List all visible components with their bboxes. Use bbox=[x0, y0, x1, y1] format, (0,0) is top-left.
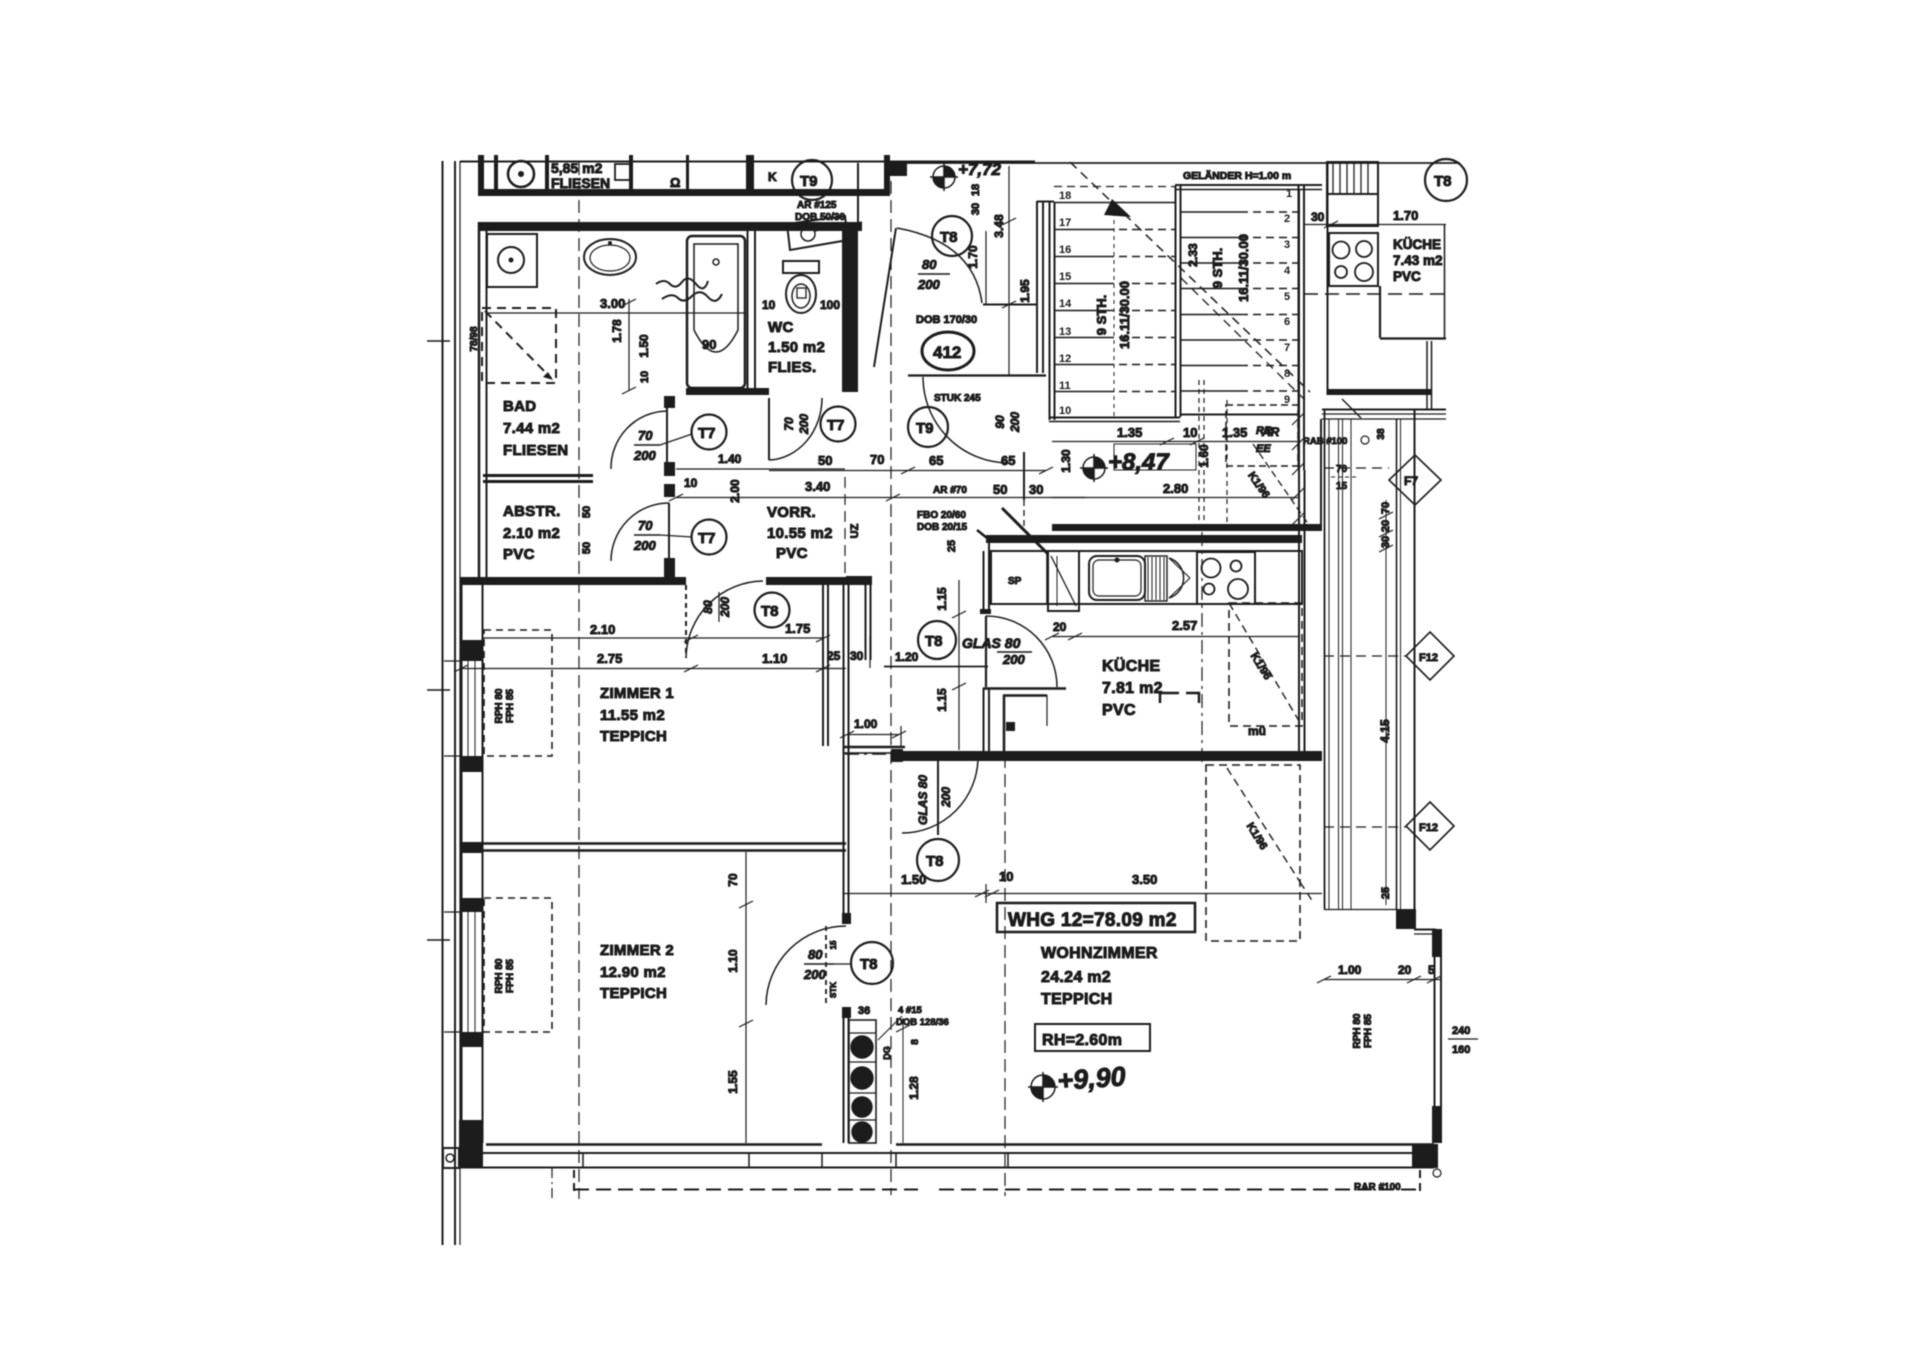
F7 window diamond bbox=[1389, 455, 1441, 505]
window mid lines left wall bbox=[467, 661, 469, 756]
wohnzimmer interior bottom line bbox=[896, 1143, 1434, 1146]
svg-text:200: 200 bbox=[1002, 652, 1025, 667]
kitchen west wall upper bbox=[983, 551, 985, 614]
upper room bottom wall band bbox=[484, 189, 887, 196]
top strip ceiling line bbox=[460, 161, 1035, 163]
svg-text:TEPPICH: TEPPICH bbox=[600, 985, 667, 1002]
upper room divider 1 bbox=[494, 155, 498, 189]
svg-text:3: 3 bbox=[1284, 239, 1290, 251]
svg-text:65: 65 bbox=[929, 453, 943, 468]
neighbor kitchen right boundary bbox=[1444, 224, 1446, 338]
svg-text:16.11/30.00: 16.11/30.00 bbox=[1117, 281, 1132, 349]
svg-text:T8: T8 bbox=[1434, 173, 1452, 190]
svg-text:SP: SP bbox=[1008, 576, 1022, 587]
svg-text:70: 70 bbox=[638, 428, 653, 443]
F7 bay top wall bbox=[1322, 409, 1446, 411]
svg-text:1.15: 1.15 bbox=[935, 688, 949, 712]
dashed line kitchen-neighbor bbox=[1304, 293, 1446, 295]
svg-text:1: 1 bbox=[1286, 188, 1292, 200]
ZIMMER1 window dashed box bbox=[484, 630, 552, 756]
kitchen axis dash-dot bbox=[1201, 532, 1203, 762]
svg-text:PVC: PVC bbox=[503, 546, 535, 563]
vertical dim chain x1386 bbox=[1385, 500, 1387, 905]
svg-text:ZIMMER 2: ZIMMER 2 bbox=[600, 942, 674, 959]
door label T8 circle (top right) bbox=[1425, 159, 1467, 201]
svg-text:12: 12 bbox=[1059, 353, 1071, 365]
BAD left wall inner bbox=[486, 222, 488, 577]
svg-text:1.00: 1.00 bbox=[1338, 963, 1362, 977]
svg-text:T8: T8 bbox=[761, 603, 779, 620]
svg-text:160: 160 bbox=[1452, 1044, 1470, 1056]
vertical dim line in BAD bbox=[628, 299, 630, 391]
svg-text:PVC: PVC bbox=[776, 545, 808, 562]
entry door pier black bbox=[887, 161, 907, 176]
svg-text:+9,90: +9,90 bbox=[1056, 1061, 1126, 1096]
zimmer2 east wall lower bbox=[843, 1007, 845, 1143]
zimmer divider wall bbox=[483, 842, 846, 845]
svg-text:ZIMMER 1: ZIMMER 1 bbox=[600, 685, 674, 702]
svg-text:F12: F12 bbox=[1419, 822, 1438, 834]
svg-text:FPH 85: FPH 85 bbox=[505, 959, 516, 993]
kitchen drain rack hatch bbox=[1145, 556, 1167, 601]
radiator box with circles bbox=[849, 1020, 876, 1143]
kitchen counter outline bbox=[991, 551, 1302, 604]
svg-text:5: 5 bbox=[1284, 291, 1290, 303]
svg-text:1.10: 1.10 bbox=[762, 651, 787, 666]
stair going arrow head bbox=[1104, 199, 1131, 217]
svg-text:70: 70 bbox=[782, 417, 796, 431]
svg-text:KÜCHE: KÜCHE bbox=[1393, 237, 1441, 252]
door label T7 circle (BAD) bbox=[692, 415, 727, 450]
svg-text:T8: T8 bbox=[925, 633, 943, 650]
VORR bottom wall right of door bbox=[766, 577, 846, 585]
svg-text:2.57: 2.57 bbox=[1172, 618, 1197, 633]
left inner wall line bbox=[482, 585, 484, 1143]
bottom wall band bottom line bbox=[459, 1167, 1434, 1169]
svg-text:T7: T7 bbox=[827, 417, 845, 434]
neighbor kitchen corner vertical bbox=[1426, 341, 1428, 409]
svg-text:7.43 m2: 7.43 m2 bbox=[1393, 253, 1443, 268]
kitchen sink bbox=[1089, 556, 1145, 600]
svg-text:10: 10 bbox=[639, 371, 651, 383]
svg-text:mü: mü bbox=[1248, 724, 1266, 738]
svg-text:8: 8 bbox=[910, 1039, 921, 1045]
svg-text:T9: T9 bbox=[916, 420, 934, 437]
shower dashed square bbox=[482, 308, 556, 383]
svg-text:AR #70: AR #70 bbox=[933, 485, 967, 496]
stair left flight top edge bbox=[1054, 202, 1175, 204]
svg-text:20: 20 bbox=[1053, 620, 1067, 634]
svg-text:11.55 m2: 11.55 m2 bbox=[600, 707, 665, 724]
kitchen-neighbor hob bbox=[1329, 233, 1378, 286]
svg-text:STUK 245: STUK 245 bbox=[934, 393, 981, 404]
hall vertical dim line bbox=[958, 580, 960, 750]
svg-text:1.10: 1.10 bbox=[726, 949, 740, 973]
svg-text:RPH 80: RPH 80 bbox=[1352, 1013, 1363, 1048]
ABSTR door jamb lower bbox=[664, 558, 675, 577]
door label T8 circle (kitchen glass door) bbox=[918, 621, 956, 659]
survey marker +7,72 bbox=[930, 163, 958, 191]
svg-text:T8: T8 bbox=[860, 956, 878, 973]
entry corridor floor line bbox=[983, 304, 1037, 306]
svg-text:4.15: 4.15 bbox=[1378, 719, 1392, 743]
svg-text:RPH 80: RPH 80 bbox=[494, 958, 505, 993]
thin box around 8,47 bbox=[1114, 444, 1196, 470]
svg-text:PVC: PVC bbox=[1102, 702, 1136, 719]
corridor west wall above WC bbox=[857, 163, 859, 222]
svg-text:11: 11 bbox=[1059, 380, 1071, 392]
svg-text:15: 15 bbox=[829, 940, 838, 949]
stair right flight steps bbox=[1181, 212, 1298, 391]
svg-text:FLIESEN: FLIESEN bbox=[503, 442, 568, 459]
sheet left edge line 2 bbox=[454, 161, 456, 1245]
door label T9 top bbox=[792, 160, 832, 200]
svg-text:200: 200 bbox=[917, 277, 940, 292]
svg-text:10: 10 bbox=[762, 298, 776, 312]
svg-text:RH=2.60m: RH=2.60m bbox=[1042, 1032, 1122, 1049]
kitchen-neighbor hatched box bbox=[1327, 162, 1378, 194]
wohnzimmer glass door leaf bbox=[937, 757, 939, 835]
upper room divider 3 bbox=[629, 155, 633, 189]
door label T8 circle (VORR-hall) bbox=[755, 593, 790, 628]
svg-text:2.00: 2.00 bbox=[728, 479, 742, 503]
K1/96 shaft dashed rect (wohnzimmer) bbox=[1206, 765, 1300, 941]
svg-text:FLIES.: FLIES. bbox=[768, 359, 816, 376]
second dashed diagonal bbox=[1181, 278, 1305, 400]
svg-text:200: 200 bbox=[797, 414, 811, 435]
svg-text:14: 14 bbox=[1059, 298, 1072, 310]
door label T7 circle (ABSTR) bbox=[692, 520, 727, 555]
svg-text:1.00: 1.00 bbox=[854, 717, 878, 731]
survey marker +8,47 bbox=[1080, 454, 1108, 482]
svg-text:90: 90 bbox=[702, 337, 716, 352]
svg-text:7: 7 bbox=[1284, 342, 1290, 354]
hall door T8 arc bbox=[686, 581, 763, 658]
center line stubs below wall bbox=[551, 1168, 553, 1199]
dim line vertical x1009 (3.48/1.95 chain) bbox=[1008, 166, 1010, 375]
svg-text:70: 70 bbox=[726, 873, 740, 887]
left wall piers bbox=[461, 640, 483, 661]
svg-text:24.24 m2: 24.24 m2 bbox=[1041, 969, 1111, 986]
sheet edge tick y341 bbox=[427, 340, 450, 342]
ABSTR door T7 leaf and arc bbox=[668, 503, 670, 561]
svg-text:1.78: 1.78 bbox=[610, 319, 624, 343]
dashed line above left flight bbox=[1054, 186, 1175, 188]
svg-text:1.30: 1.30 bbox=[1059, 449, 1073, 473]
nook bottom wall bbox=[843, 746, 905, 749]
svg-text:80: 80 bbox=[808, 947, 823, 962]
hall-kitchen floor line bbox=[983, 687, 1066, 690]
svg-text:3.40: 3.40 bbox=[805, 479, 830, 494]
svg-text:200: 200 bbox=[633, 448, 656, 463]
zimmer2 door T8 arc bbox=[766, 926, 846, 1005]
wall stub below bathtub bbox=[686, 388, 746, 395]
landing dim line y497 bbox=[1052, 497, 1300, 499]
upper room left wall bbox=[478, 155, 484, 196]
svg-text:7.81 m2: 7.81 m2 bbox=[1102, 680, 1163, 697]
svg-text:1.40: 1.40 bbox=[718, 452, 742, 466]
door label T8 circle (entry) bbox=[932, 216, 972, 256]
svg-text:9 STH.: 9 STH. bbox=[1210, 248, 1225, 288]
svg-text:200: 200 bbox=[718, 597, 732, 618]
sheet edge tick y940 bbox=[427, 939, 450, 941]
hall-wohnzimmer dash-dot boundary bbox=[845, 753, 1004, 755]
svg-text:1.50: 1.50 bbox=[901, 872, 926, 887]
svg-text:4 #15: 4 #15 bbox=[898, 1005, 922, 1016]
left outer wall line bbox=[461, 577, 463, 1166]
svg-text:100: 100 bbox=[820, 298, 840, 312]
kitchen chamfer bbox=[977, 530, 992, 542]
svg-text:GLAS 80: GLAS 80 bbox=[916, 775, 930, 825]
svg-text:78/98: 78/98 bbox=[469, 326, 480, 351]
stair east wall bbox=[1298, 185, 1300, 470]
svg-text:FPH 85: FPH 85 bbox=[505, 689, 516, 723]
svg-text:3.00: 3.00 bbox=[600, 296, 625, 311]
svg-text:1.50: 1.50 bbox=[637, 334, 651, 358]
svg-text:10: 10 bbox=[999, 869, 1013, 884]
main top wall of BAD/WC bbox=[478, 222, 862, 231]
kitchen dim line y636 bbox=[1052, 636, 1300, 638]
zimmer2 east wall jamb lower bbox=[842, 1007, 851, 1018]
BAD door T7 leaf and arc bbox=[666, 408, 668, 468]
dim line y668 bbox=[461, 668, 846, 670]
WC left wall bbox=[747, 231, 749, 392]
svg-text:1.95: 1.95 bbox=[1018, 279, 1032, 303]
hall east wall (VORR side) bbox=[865, 577, 867, 660]
kitchen glass door leaf bbox=[985, 616, 987, 687]
svg-text:90: 90 bbox=[993, 415, 1007, 429]
svg-text:10.55 m2: 10.55 m2 bbox=[767, 525, 833, 542]
WC right wall thick bbox=[842, 222, 858, 392]
door label T8 circle (zimmer2) bbox=[851, 942, 893, 984]
landing axis dashed vertical 2 bbox=[1226, 400, 1228, 530]
K1/96 shaft dashed rect (kitchen) bbox=[1229, 603, 1302, 726]
kitchen hob bbox=[1197, 552, 1255, 604]
kitchen east wall bbox=[1298, 189, 1300, 760]
svg-text:T9: T9 bbox=[800, 173, 818, 190]
dim line vertical x986 bbox=[985, 231, 987, 304]
svg-text:WHG 12=78.09 m2: WHG 12=78.09 m2 bbox=[1008, 910, 1177, 931]
svg-text:PVC: PVC bbox=[1393, 269, 1421, 284]
bottom wall left corner black bbox=[459, 1120, 483, 1168]
bay bottom tick bbox=[1324, 909, 1396, 911]
door label T9 circle (landing) bbox=[908, 407, 948, 447]
svg-text:16: 16 bbox=[1059, 244, 1071, 256]
svg-text:1.50 m2: 1.50 m2 bbox=[768, 339, 825, 356]
svg-text:18: 18 bbox=[1059, 190, 1071, 202]
upper room small rect bbox=[615, 164, 630, 180]
bay glazing lines bbox=[1324, 409, 1326, 909]
svg-text:70: 70 bbox=[638, 518, 653, 533]
svg-text:15: 15 bbox=[1059, 271, 1071, 283]
svg-text:F7: F7 bbox=[1404, 474, 1418, 488]
svg-text:1.75: 1.75 bbox=[785, 621, 810, 636]
balcony dashed outline left bbox=[573, 1170, 575, 1192]
WC bottom wall stub bbox=[746, 388, 769, 395]
svg-text:16.11/30.00: 16.11/30.00 bbox=[1236, 234, 1251, 302]
svg-text:2.75: 2.75 bbox=[597, 651, 622, 666]
handwritten scribble above tub bbox=[656, 278, 722, 300]
svg-text:T7: T7 bbox=[698, 530, 716, 547]
svg-text:KÜCHE: KÜCHE bbox=[1102, 656, 1160, 675]
svg-text:+8,47: +8,47 bbox=[1108, 449, 1170, 476]
landing axis dashed vertical 1 bbox=[1198, 380, 1200, 530]
svg-text:20: 20 bbox=[1398, 963, 1412, 977]
svg-text:9: 9 bbox=[1284, 394, 1290, 406]
upper landing floor line bbox=[907, 162, 1460, 164]
axis A dash-dot bbox=[578, 162, 580, 1199]
kitchen round unit bbox=[1169, 558, 1184, 598]
BAD bottom wall upper line bbox=[483, 474, 593, 477]
BAD bottom wall lower line bbox=[483, 480, 593, 483]
svg-text:1.20: 1.20 bbox=[895, 650, 919, 664]
door label T7 circle (WC) bbox=[821, 407, 856, 442]
svg-text:1.15: 1.15 bbox=[935, 587, 949, 611]
svg-text:FLIESEN: FLIESEN bbox=[551, 175, 610, 191]
svg-text:1.28: 1.28 bbox=[907, 1076, 921, 1100]
stair going dashed diagonal bbox=[1070, 162, 1310, 392]
svg-text:70: 70 bbox=[870, 452, 884, 467]
svg-text:RR: RR bbox=[1256, 425, 1272, 437]
entry area: corridor wall left of stairs bbox=[1036, 201, 1038, 373]
dim line y470 bbox=[769, 470, 1046, 472]
landing dim line y441 bbox=[1052, 441, 1300, 443]
bottom wall band top line bbox=[459, 1152, 1434, 1154]
svg-text:GLAS 80: GLAS 80 bbox=[962, 635, 1021, 651]
survey marker +9,90 bbox=[1028, 1072, 1058, 1102]
svg-text:K: K bbox=[768, 170, 777, 184]
svg-text:2: 2 bbox=[1284, 213, 1290, 225]
entry door T8 arc bbox=[897, 228, 982, 303]
svg-text:17: 17 bbox=[1059, 217, 1071, 229]
svg-text:25: 25 bbox=[946, 540, 958, 552]
svg-text:412: 412 bbox=[933, 343, 961, 362]
ZIMMER2 window dashed box bbox=[484, 898, 552, 1032]
stair west wall top connector bbox=[1037, 201, 1054, 203]
corridor east wall stub bbox=[1023, 452, 1025, 500]
svg-text:2.33: 2.33 bbox=[1186, 243, 1200, 267]
svg-text:WC: WC bbox=[768, 319, 794, 336]
svg-text:9 STH.: 9 STH. bbox=[1094, 295, 1109, 335]
BAD left wall outer bbox=[478, 222, 481, 585]
svg-text:2.80: 2.80 bbox=[1163, 481, 1188, 496]
wohnzimmer north wall bbox=[903, 751, 1322, 761]
svg-text:FPH 85: FPH 85 bbox=[1363, 1014, 1374, 1048]
svg-text:T8: T8 bbox=[926, 853, 944, 870]
svg-text:10: 10 bbox=[1059, 405, 1071, 417]
bottom-left protrusion bbox=[443, 1148, 459, 1168]
upper room thick divider WC shaft bbox=[746, 155, 754, 196]
BAD door jamb upper bbox=[664, 396, 675, 408]
balcony dashed outline right bbox=[939, 1189, 1420, 1191]
svg-text:240: 240 bbox=[1452, 1025, 1470, 1037]
stair middle wall bbox=[1175, 186, 1177, 417]
svg-text:3.48: 3.48 bbox=[992, 214, 1006, 238]
zimmer2 interior bottom line bbox=[486, 1143, 822, 1146]
wall B (hall west) bbox=[843, 585, 845, 924]
shower dashed diagonal bbox=[485, 311, 551, 378]
stair left flight west wall bbox=[1049, 202, 1051, 420]
svg-text:1.70: 1.70 bbox=[1393, 208, 1418, 223]
bracket marks bbox=[1160, 693, 1179, 703]
bathtub bbox=[687, 236, 745, 388]
svg-text:UZ: UZ bbox=[849, 523, 861, 538]
wohnzimmer east wall bbox=[1434, 929, 1436, 1143]
vent duct trapezoid bbox=[787, 216, 848, 250]
svg-text:2.10 m2: 2.10 m2 bbox=[503, 525, 560, 542]
toilet bbox=[783, 261, 819, 273]
upper room washing machine circle bbox=[508, 161, 534, 187]
BAD door jamb lower bbox=[664, 462, 675, 476]
svg-text:5,85 m2: 5,85 m2 bbox=[551, 160, 603, 176]
svg-text:6: 6 bbox=[1284, 316, 1290, 328]
svg-text:F12: F12 bbox=[1419, 652, 1438, 664]
svg-text:+7,72: +7,72 bbox=[958, 160, 1002, 179]
svg-text:4: 4 bbox=[1284, 265, 1291, 277]
svg-text:50: 50 bbox=[581, 542, 593, 554]
svg-text:DOB 128/36: DOB 128/36 bbox=[896, 1017, 949, 1028]
entry door T8 leaf (slanted) bbox=[874, 228, 896, 367]
svg-text:VORR.: VORR. bbox=[767, 504, 816, 521]
kitchen-neighbor interior corner wall bbox=[1379, 286, 1381, 338]
svg-text:3.50: 3.50 bbox=[1132, 872, 1157, 887]
svg-text:30: 30 bbox=[970, 203, 982, 215]
svg-text:10: 10 bbox=[1183, 425, 1197, 440]
zimmer2 interior dim chain bbox=[745, 852, 747, 1143]
washing machine in BAD bbox=[487, 234, 537, 287]
svg-text:AR #125: AR #125 bbox=[797, 200, 837, 211]
stair right flight top wall bbox=[1175, 184, 1322, 186]
svg-text:1.35: 1.35 bbox=[1117, 425, 1142, 440]
kitchen SP cupboard bbox=[991, 551, 1047, 604]
svg-text:T8: T8 bbox=[940, 229, 958, 246]
kitchen nook walls bbox=[1003, 694, 1047, 697]
dim line 1.20 bbox=[884, 666, 988, 668]
RH box bbox=[1035, 1024, 1150, 1051]
svg-text:200: 200 bbox=[633, 538, 656, 553]
stair left flight bottom landing lines bbox=[1049, 417, 1180, 419]
K1/96 dashed diagonal (landing) bbox=[1253, 444, 1311, 528]
svg-text:200: 200 bbox=[803, 967, 826, 982]
kitchen-neighbor bottom wall bbox=[1327, 389, 1431, 395]
landing bottom wall bbox=[1052, 524, 1322, 531]
svg-text:RAR #100: RAR #100 bbox=[1354, 1182, 1401, 1193]
wohnzimmer north wall pier bbox=[891, 749, 903, 762]
kitchen fridge box bbox=[1048, 551, 1079, 611]
svg-text:BAD: BAD bbox=[503, 398, 536, 415]
corridor diagonal wall bbox=[1002, 508, 1048, 554]
kitchen north wall bbox=[986, 535, 1302, 543]
wall stub VORR-hall corner bbox=[846, 576, 872, 585]
vertical dim line x903 bbox=[902, 1018, 904, 1143]
svg-text:30: 30 bbox=[850, 649, 864, 663]
svg-text:7.44 m2: 7.44 m2 bbox=[503, 420, 560, 437]
svg-text:70: 70 bbox=[1336, 464, 1348, 475]
svg-text:50: 50 bbox=[993, 482, 1007, 497]
svg-text:13: 13 bbox=[1059, 326, 1071, 338]
svg-text:STK: STK bbox=[829, 982, 838, 998]
svg-text:2.10: 2.10 bbox=[590, 622, 615, 637]
dim line y638 bbox=[483, 637, 823, 639]
stair east wall hatch bbox=[1292, 413, 1304, 525]
svg-text:1.70: 1.70 bbox=[966, 245, 980, 269]
svg-text:5: 5 bbox=[1428, 963, 1435, 977]
svg-text:10: 10 bbox=[684, 476, 698, 490]
stair right flight bottom lines bbox=[1181, 414, 1298, 416]
svg-text:RPH 80: RPH 80 bbox=[494, 688, 505, 723]
bottom wall right corner black bbox=[1412, 1144, 1438, 1168]
svg-text:15: 15 bbox=[1336, 481, 1348, 492]
